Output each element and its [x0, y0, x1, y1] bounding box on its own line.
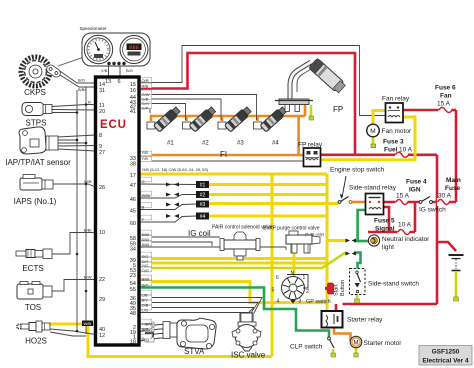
svg-text:GSF1250: GSF1250 — [432, 349, 460, 356]
svg-text:Speedometer: Speedometer — [79, 26, 107, 31]
svg-text:B/Br: B/Br — [84, 228, 92, 233]
svg-text:W/Bl: W/Bl — [142, 193, 151, 198]
wire red right vertical fuse6 to main fuse — [455, 110, 458, 202]
svg-text:30 A: 30 A — [438, 193, 452, 200]
svg-text:6: 6 — [118, 79, 121, 85]
svg-text:20: 20 — [99, 109, 105, 115]
fuse 6 symbol — [439, 106, 453, 114]
HO2S sensor — [17, 321, 50, 332]
svg-text:HO2S: HO2S — [25, 337, 47, 346]
svg-text:16: 16 — [130, 88, 136, 94]
wire orange injector drop4 — [256, 116, 259, 121]
svg-text:B/W: B/W — [142, 277, 150, 282]
svg-text:O/B (5-12, 18) C/W (5-63, 24,: O/B (5-12, 18) C/W (5-63, 24, 29, 53) — [142, 167, 209, 172]
svg-text:Neutral indicator: Neutral indicator — [382, 236, 430, 243]
wire yellow PAIR valve drop — [239, 251, 242, 259]
IAP/TP/IAT sensor — [19, 127, 58, 154]
svg-text:B/O: B/O — [78, 78, 85, 83]
wire gray injector feed 42 — [139, 104, 186, 121]
svg-text:FP: FP — [333, 105, 343, 114]
wire yellow FP relay to fan circuit — [320, 117, 415, 160]
wire orange injector drop2 — [185, 116, 188, 121]
CLP switch symbol — [328, 337, 336, 357]
svg-text:W/B: W/B — [84, 321, 92, 326]
wire yellow bus line3 coil2 — [209, 193, 327, 196]
ECU U1 box — [96, 77, 140, 345]
wire yellow mid row y263 — [139, 262, 327, 265]
svg-text:12: 12 — [99, 333, 105, 339]
wire gray left bus A — [76, 90, 78, 330]
wire yellow bus line5 coil4 — [209, 215, 327, 218]
junction dots — [76, 103, 88, 332]
PAIR control solenoid valve — [220, 232, 260, 260]
wire red fuse5 row — [368, 231, 415, 234]
wire gray speedo to ECU pin13 — [108, 66, 110, 77]
svg-text:G: G — [146, 338, 149, 343]
svg-text:N: N — [291, 271, 295, 277]
svg-text:3: 3 — [299, 299, 302, 305]
svg-text:F/W: F/W — [146, 322, 154, 327]
svg-text:Y/B: Y/B — [142, 156, 149, 161]
svg-text:Fuse 6: Fuse 6 — [435, 85, 456, 92]
wire red FP relay to battery bus — [320, 154, 437, 157]
FP relay box — [304, 148, 321, 167]
STVA tag texts — [146, 322, 154, 343]
ECU pin ticks right — [137, 83, 141, 108]
wire gray CKPS to speedometer — [58, 57, 84, 66]
svg-text:O/R: O/R — [142, 78, 149, 83]
svg-text:(5-38 only): (5-38 only) — [305, 232, 325, 237]
main fuse symbol — [437, 198, 450, 206]
svg-text:Fuse 3: Fuse 3 — [383, 139, 404, 146]
wire yellow mid row y259 — [139, 257, 327, 260]
svg-text:#4: #4 — [272, 141, 279, 147]
svg-text:1: 1 — [303, 275, 306, 281]
svg-text:L/G: L/G — [142, 308, 148, 313]
injector 4 — [254, 106, 288, 133]
wire green pin55 to CLP switch — [139, 288, 329, 338]
svg-text:W/B: W/B — [146, 332, 154, 337]
svg-text:#3: #3 — [237, 141, 244, 147]
svg-text:60: 60 — [130, 221, 136, 227]
ECU-LAYER — [96, 77, 142, 346]
svg-text:#2: #2 — [202, 141, 209, 147]
wire gray IAP sensor lines — [58, 135, 96, 137]
svg-text:38: 38 — [130, 162, 136, 168]
svg-text:O/G: O/G — [142, 268, 149, 273]
wire gray injector feed 43 — [139, 99, 221, 120]
wire gray loop pin15 O/R to fan relay — [139, 46, 386, 116]
svg-text:IGN: IGN — [409, 187, 421, 194]
svg-text:CKPS: CKPS — [24, 88, 46, 97]
svg-text:Signal: Signal — [375, 226, 395, 233]
start button — [325, 283, 334, 294]
wire gray pair/evap lines — [139, 236, 220, 238]
svg-text:FP relay: FP relay — [298, 142, 323, 149]
wire color labels right of ECU — [142, 78, 151, 341]
svg-text:888: 888 — [129, 44, 139, 51]
wire gray STPS lines — [52, 105, 96, 107]
svg-text:Side-stand switch: Side-stand switch — [368, 281, 419, 288]
GP switch dial — [282, 275, 309, 304]
svg-text:B/G: B/G — [126, 68, 133, 73]
wire color labels left area — [78, 68, 133, 280]
svg-text:CLP switch: CLP switch — [290, 344, 323, 351]
svg-text:Fan relay: Fan relay — [382, 96, 410, 103]
svg-text:ECTS: ECTS — [22, 264, 43, 273]
wire chartreuse CLP ground — [332, 349, 335, 353]
svg-text:#3: #3 — [200, 202, 206, 208]
fan motor — [367, 124, 380, 147]
svg-text:41: 41 — [130, 109, 136, 115]
svg-text:B/W: B/W — [84, 275, 92, 280]
fuel pump FP — [275, 58, 346, 111]
svg-text:B/Br: B/Br — [78, 87, 86, 92]
svg-text:4: 4 — [277, 299, 280, 305]
TOS sensor — [17, 282, 52, 300]
wire orange pin33 to FP relay — [139, 154, 304, 157]
starter motor — [350, 336, 362, 348]
svg-text:G: G — [142, 336, 145, 341]
wire orange starter relay to starter motor — [334, 327, 351, 341]
svg-text:STPS: STPS — [26, 119, 47, 128]
svg-text:34: 34 — [130, 247, 136, 253]
HO2S W/B tag — [82, 321, 93, 327]
wire green arrows to side-stand switch — [354, 253, 361, 271]
svg-text:Fuse 4: Fuse 4 — [406, 179, 427, 186]
STVA connector tags — [145, 322, 154, 342]
svg-text:27: 27 — [99, 150, 105, 156]
wire label tag boxes — [141, 78, 152, 339]
label coil box numbers — [200, 183, 206, 221]
wire gray coil line pin46 — [139, 195, 196, 199]
fuse 4 symbol — [396, 198, 409, 206]
wire red fuse4 to fuse5 drop — [414, 202, 417, 232]
wire gray injector feed 44 — [139, 95, 257, 121]
wire gray coil line pin60 — [139, 216, 196, 222]
svg-text:6: 6 — [276, 275, 279, 281]
wire green to neutral light — [358, 240, 369, 243]
wire yellow EVAP to GP top — [293, 252, 296, 303]
wire gray CKPS lines — [57, 69, 96, 83]
wire yellow long vertical x272 — [271, 174, 274, 357]
STPS sensor — [22, 103, 52, 116]
wire chartreuse battery to ground — [455, 272, 458, 297]
svg-text:Y: Y — [142, 217, 145, 222]
svg-text:23: 23 — [130, 273, 136, 279]
wire gray pin38 to FP relay — [139, 160, 304, 162]
fuse 5 symbol — [398, 228, 411, 236]
svg-text:Fan: Fan — [440, 93, 452, 100]
svg-text:ISC valve: ISC valve — [231, 351, 266, 360]
svg-text:Side-stand relay: Side-stand relay — [349, 185, 397, 192]
svg-text:Fuel: Fuel — [384, 147, 398, 154]
wire red battery elbow — [437, 242, 456, 251]
ISC valve — [232, 313, 261, 351]
wire red ign row right part — [432, 201, 457, 204]
wire gray STVA lines — [139, 325, 163, 327]
wire chartreuse fan motor ground — [372, 137, 375, 144]
wire yellow pin54 to GP switch — [139, 282, 327, 303]
svg-text:G: G — [142, 179, 145, 184]
wire gray coil line pin45 — [139, 204, 196, 210]
svg-text:22: 22 — [99, 277, 105, 283]
svg-text:M: M — [354, 341, 359, 347]
svg-text:Engine stop switch: Engine stop switch — [330, 167, 385, 174]
wire chartreuse starter motor ground — [355, 348, 358, 353]
svg-text:FI: FI — [220, 150, 227, 159]
wire yellow bus line2 coil1 — [209, 183, 327, 186]
svg-text:STVA: STVA — [184, 347, 205, 356]
wire red side-stand relay lower pin to fuse5 row — [384, 207, 390, 232]
wire yellow bus line4 coil3 to engine stop switch — [209, 202, 339, 205]
svg-text:46: 46 — [130, 197, 136, 203]
svg-text:Y/B: Y/B — [101, 68, 108, 73]
svg-text:8: 8 — [99, 133, 102, 139]
battery — [449, 255, 464, 301]
wire orange injector bus — [151, 116, 305, 121]
neutral indicator light — [368, 235, 379, 246]
svg-text:10 A: 10 A — [399, 147, 413, 154]
WIRES-LAYER — [50, 46, 456, 357]
wire gray TOS line — [52, 280, 96, 292]
label GP switch positions — [272, 271, 310, 305]
wire red starter row — [343, 303, 438, 306]
svg-text:31: 31 — [99, 88, 105, 94]
wire red loop pin16 R/B to x355 — [139, 53, 355, 155]
svg-text:G/Y: G/Y — [142, 283, 149, 288]
wire gray injector feed 41 — [139, 108, 150, 113]
svg-text:18: 18 — [130, 340, 136, 346]
svg-text:#1: #1 — [200, 183, 206, 189]
svg-text:W/B: W/B — [84, 179, 92, 184]
svg-text:light: light — [382, 244, 394, 251]
svg-text:ECU: ECU — [100, 119, 127, 131]
svg-text:Y/B: Y/B — [142, 150, 149, 155]
svg-text:R: R — [88, 100, 91, 105]
svg-text:10 A: 10 A — [398, 222, 412, 229]
wire yellow fan relay to fan motor — [373, 111, 386, 125]
wire red ign row side-stand relay to main fuse — [384, 201, 420, 204]
svg-text:45: 45 — [130, 209, 136, 215]
wire red fan relay to fuse6 — [403, 109, 456, 112]
wire orange injector drop3 — [221, 116, 224, 121]
svg-text:Starter relay: Starter relay — [347, 317, 383, 324]
coil connector arrows — [166, 183, 179, 219]
svg-text:M: M — [370, 128, 375, 135]
svg-text:Fuse: Fuse — [445, 185, 461, 192]
IAPS No1 sensor — [20, 175, 53, 191]
injector 1 — [147, 106, 181, 133]
wire gray IAPS line — [53, 184, 96, 187]
ECU top pin numbers — [105, 79, 121, 85]
svg-text:IAP/TP/IAT sensor: IAP/TP/IAT sensor — [5, 158, 71, 167]
svg-text:#2: #2 — [200, 193, 206, 199]
svg-text:15 A: 15 A — [437, 101, 451, 108]
svg-text:IAPS (No.1): IAPS (No.1) — [14, 197, 57, 206]
CKPS gear — [21, 57, 62, 86]
ground blobs — [309, 116, 314, 120]
wire gray ISC lines — [139, 298, 262, 314]
fan relay box — [386, 103, 404, 123]
wire chartreuse FP ground stub — [310, 105, 313, 116]
speedometer cluster — [82, 33, 150, 66]
starter relay box — [322, 311, 343, 328]
svg-text:55: 55 — [130, 287, 136, 293]
wire gray ECTS line — [52, 233, 96, 255]
svg-text:Electrical Ver 4: Electrical Ver 4 — [422, 358, 469, 365]
injector 2 — [183, 106, 217, 133]
svg-text:5: 5 — [272, 288, 275, 294]
ECTS sensor — [16, 249, 52, 259]
svg-text:#4: #4 — [200, 214, 206, 220]
svg-text:47: 47 — [130, 183, 136, 189]
GSF1250 version box — [419, 346, 472, 366]
wire orange engine stop switch to side-stand relay — [351, 201, 366, 204]
side-stand relay box — [366, 194, 384, 215]
svg-text:Fuse 5: Fuse 5 — [374, 218, 395, 225]
engine stop switch symbol — [338, 176, 352, 203]
wire gray speedo to ECU pin6 — [119, 66, 121, 77]
svg-text:Main: Main — [446, 177, 461, 184]
wire orange branch to injector bus — [297, 116, 300, 155]
wire yellow bottom bus from HO2S — [88, 325, 272, 357]
wire green side-stand relay to neutral light — [354, 210, 366, 241]
svg-text:48: 48 — [130, 311, 136, 317]
svg-text:S/W: S/W — [142, 242, 150, 247]
svg-text:G/R: G/R — [142, 106, 149, 111]
svg-text:2: 2 — [306, 289, 309, 295]
svg-text:Fan motor: Fan motor — [382, 128, 412, 135]
fuse 3 symbol — [395, 151, 409, 159]
wire chartreuse pin53 row — [139, 253, 346, 269]
wire yellow bus line1 pin17 — [139, 173, 327, 176]
svg-text:Button: Button — [340, 280, 346, 296]
svg-text:26: 26 — [99, 185, 105, 191]
svg-text:B: B — [142, 205, 145, 210]
svg-text:GP switch: GP switch — [306, 299, 331, 305]
svg-text:15 A: 15 A — [396, 193, 410, 200]
IG switch symbol — [419, 197, 432, 204]
STVA actuator — [163, 318, 216, 349]
wire yellow row to side-stand connector — [327, 239, 346, 242]
wire yellow HO2S to ECU — [50, 324, 96, 327]
wire gray left bus B — [85, 87, 87, 334]
svg-text:Starter motor: Starter motor — [364, 340, 403, 347]
wire orange FP drop — [304, 105, 307, 116]
svg-text:29: 29 — [99, 297, 105, 303]
svg-text:17: 17 — [130, 173, 136, 179]
side-stand connector arrows — [346, 239, 357, 256]
svg-text:#1: #1 — [167, 141, 174, 147]
injector 3 — [218, 106, 252, 133]
svg-text:Start: Start — [334, 284, 340, 296]
wire yellow bus join vertical x327 down to starter relay — [326, 174, 329, 311]
svg-text:10: 10 — [99, 230, 105, 236]
svg-text:13: 13 — [105, 79, 111, 85]
wire chartreuse below side-stand switch — [356, 294, 359, 299]
side-stand switch — [350, 269, 366, 295]
wire red battery bus vertical — [436, 155, 439, 304]
svg-text:R/B: R/B — [142, 84, 149, 89]
EVAP purge control valve — [286, 231, 320, 253]
IG coil boxes — [196, 181, 209, 220]
ECU left pin numbers — [99, 82, 105, 339]
ECU right pin numbers — [130, 82, 136, 346]
wire red starter relay stub — [335, 304, 338, 311]
svg-text:TOS: TOS — [25, 303, 41, 312]
wire gray coil line pin47 — [139, 183, 196, 186]
svg-text:IG coil: IG coil — [188, 229, 211, 238]
wire gray HO2S extra lines — [50, 329, 96, 335]
svg-text:IG switch: IG switch — [419, 207, 446, 214]
